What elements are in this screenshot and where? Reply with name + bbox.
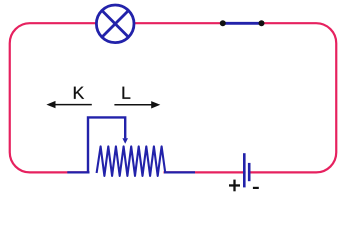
- switch contact dot right: [259, 20, 265, 26]
- battery positive plate (long): [243, 153, 246, 187]
- arrow K (pointing left): [54, 104, 92, 106]
- lamp B1: [96, 5, 134, 43]
- label L: [123, 87, 131, 99]
- label K: [74, 87, 84, 99]
- battery negative plate (short): [248, 163, 251, 181]
- switch contact dot left: [220, 20, 226, 26]
- switch S1 bar: [223, 22, 262, 25]
- rheostat R1 zigzag element: [97, 146, 166, 176]
- arrow L (pointing right): [114, 104, 152, 106]
- label +: [233, 180, 235, 192]
- label -: [253, 187, 259, 189]
- wire (blue segment left of rheostat): [67, 171, 89, 173]
- wire gap in battery: [246, 168, 248, 177]
- wire gap under rheostat: [90, 168, 164, 177]
- rheostat wiper arrowhead: [122, 138, 128, 144]
- circuit loop wire: [10, 23, 337, 172]
- rheostat R1 wiper arm: [88, 117, 125, 172]
- wire (blue segment right of rheostat): [164, 171, 195, 173]
